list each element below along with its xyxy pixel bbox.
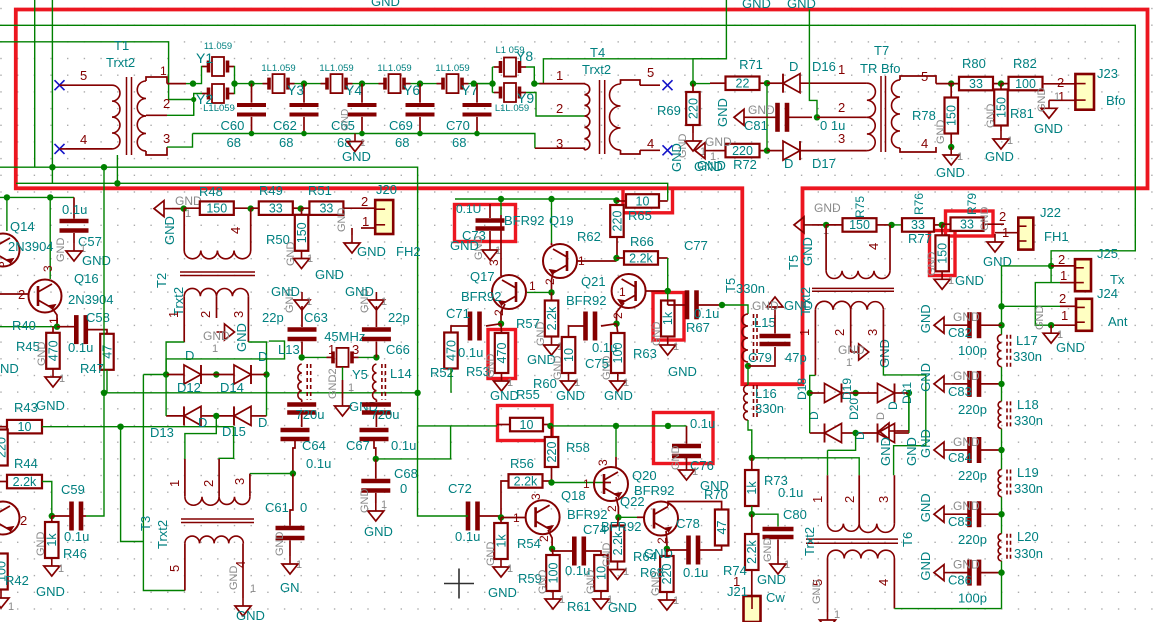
svg-text:10: 10 [636,194,650,208]
svg-text:68: 68 [452,135,466,150]
svg-text:GND: GND [1034,121,1063,136]
svg-text:GND: GND [918,304,933,333]
selection highlight box R79 [946,211,994,236]
svg-text:L14: L14 [390,366,412,381]
svg-text:T3: T3 [138,516,153,531]
selection highlight box R65 [623,188,673,213]
gnd C63 [271,284,312,313]
resistor R80 [936,56,1001,91]
junction C62 bottom [301,131,307,137]
svg-text:ND: ND [0,361,19,376]
svg-text:GND: GND [271,284,300,299]
connector J22 [1018,218,1033,250]
Y9 value [495,103,529,114]
junction R75 right [888,222,894,228]
svg-text:3: 3 [232,478,247,485]
junction bus [998,511,1004,517]
junction quad R [906,390,912,396]
junction bridge M [213,371,219,377]
svg-text:Q20: Q20 [632,468,657,483]
gnd R81 [985,104,1014,165]
capacitor C78 [667,516,722,580]
svg-text:Cw: Cw [766,590,785,605]
wire net at x=52.4 [16,0,668,201]
wire Q16 base [0,293,28,295]
T1 pin 5 [55,68,88,90]
svg-text:GND: GND [601,543,613,568]
junction R80 left [948,80,954,86]
crystal Y8/Y9 pair [474,58,585,117]
wire L15-L16 [747,366,749,385]
diode D18 [810,383,856,402]
svg-text:GND: GND [485,354,497,379]
wire R73-R74 [751,506,753,514]
svg-text:330n: 330n [1013,349,1042,364]
svg-text:3: 3 [41,265,55,272]
svg-text:2: 2 [1057,75,1064,90]
T2 pin4 [228,227,243,234]
svg-text:GND: GND [342,149,371,164]
capacitor C71 [446,306,501,341]
svg-text:R49: R49 [259,183,283,198]
svg-text:C83: C83 [948,384,972,399]
T5 pin3 [865,329,880,336]
svg-text:470: 470 [444,340,458,361]
transistor Q18 [526,500,560,534]
junction Q16 emitter [54,324,60,330]
svg-text:4: 4 [228,227,243,234]
svg-text:330n: 330n [1014,546,1043,561]
svg-text:GND: GND [926,252,938,277]
resistor R70 [704,487,729,546]
T4 label [582,45,611,77]
svg-text:1: 1 [623,566,629,578]
svg-text:2: 2 [842,496,857,503]
svg-text:2: 2 [361,194,368,209]
svg-text:R65: R65 [628,208,652,223]
svg-text:1: 1 [8,601,14,613]
gnd J23 [1034,88,1075,137]
svg-text:GND: GND [811,580,823,605]
crystal Y4 [319,63,362,98]
svg-text:D14: D14 [220,380,244,395]
svg-text:GND: GND [203,329,230,343]
wire T3 pin2 up [219,427,234,459]
svg-text:T4: T4 [590,45,605,60]
svg-text:1: 1 [360,138,366,149]
svg-text:GND: GND [35,532,47,557]
Q16 pins [18,265,61,324]
svg-text:10: 10 [18,420,32,434]
svg-text:1L1.059: 1L1.059 [319,63,353,74]
svg-text:1: 1 [296,559,302,571]
T7 pin 1 [838,62,845,77]
svg-text:1: 1 [834,609,840,621]
svg-text:GND: GND [36,342,48,367]
wire bridge top left [166,342,184,375]
svg-text:R81: R81 [1010,106,1034,121]
svg-text:GND: GND [953,369,980,383]
junction C81 right [814,114,820,120]
svg-text:R78: R78 [912,108,936,123]
svg-text:1: 1 [583,477,590,491]
svg-text:GND: GND [608,600,637,615]
connector J20 [375,200,393,234]
svg-text:GND: GND [904,437,919,466]
junction q19e [548,289,554,295]
junction y393 tee [414,390,420,396]
svg-text:GND: GND [234,323,249,352]
wire T1 primary bottom to rail [116,155,118,183]
svg-text:330n: 330n [1014,481,1043,496]
svg-text:1: 1 [166,311,181,318]
gnd T5 pin2 [838,332,892,369]
T4 pin 1 [556,68,563,83]
svg-text:3: 3 [556,136,563,151]
svg-text:2: 2 [1058,252,1065,267]
resistor R53 [466,324,509,379]
svg-text:2N3904: 2N3904 [8,239,54,254]
capacitor C69 [389,84,435,150]
svg-text:4: 4 [921,136,928,151]
L15 value [736,281,765,296]
capacitor C67 [346,430,416,459]
capacitor 720u left [287,400,324,427]
junction bus c82b [998,322,1004,328]
svg-text:Trxt2: Trxt2 [155,520,170,549]
svg-text:GND: GND [371,0,400,9]
diode D15 [216,406,266,425]
capacitor C82 [918,304,1002,358]
svg-text:2: 2 [832,329,847,336]
svg-text:GND: GND [878,437,893,466]
junction C65 bottom [359,131,365,137]
wire R66 right down [667,258,669,305]
svg-text:GND: GND [752,299,779,313]
wire q14 collector [6,197,8,231]
cursor crosshair [444,569,474,599]
svg-text:220: 220 [545,442,559,463]
wire r65 node [616,199,618,206]
T6 pin2 [842,496,857,503]
junction bus [998,381,1004,387]
wire T5 pin1 down [810,332,816,393]
T1 pin 1 [160,64,167,78]
svg-text:Trxt2: Trxt2 [582,62,611,77]
svg-text:L1L.059: L1L.059 [495,103,529,114]
svg-text:GND: GND [979,207,991,232]
svg-text:L1L059: L1L059 [203,103,235,114]
svg-text:T1: T1 [114,38,129,53]
svg-text:3: 3 [352,342,359,357]
svg-text:GN: GN [280,580,300,595]
svg-text:3: 3 [838,131,845,146]
D16 labels [789,59,836,74]
junction quad M2 [852,430,858,436]
wire C81 net from top [809,10,817,118]
junction Y5 left [299,354,305,360]
svg-text:11.059: 11.059 [204,41,232,52]
svg-text:1L1.059: 1L1.059 [435,63,469,74]
svg-text:1: 1 [673,595,679,607]
wire long net y393 [104,392,418,394]
svg-text:GND: GND [644,546,673,561]
svg-text:68: 68 [337,135,351,150]
T7 pin 3 [838,131,845,146]
svg-text:1L1.059: 1L1.059 [261,63,295,74]
svg-text:220: 220 [686,98,700,119]
resistor R50 [266,209,309,251]
connector J25 [1075,259,1091,291]
junction R76 right [939,222,945,228]
svg-text:GND: GND [936,165,965,180]
junction R43 net [117,424,123,430]
svg-text:GND: GND [651,322,663,347]
resistor R67 [661,301,710,337]
resistor R79 [942,193,1004,232]
svg-text:1: 1 [306,296,312,308]
svg-text:GND: GND [537,570,549,595]
svg-text:3: 3 [231,311,246,318]
junction R72 right [764,147,770,153]
transistor Q20 [594,467,628,501]
junction R75 left [823,222,829,228]
resistor R47 [80,334,114,376]
wire filter gnd rail [193,134,535,149]
quad labels [795,378,914,440]
gnd T3 pin4 [228,560,265,622]
T7 pin 2 [838,100,845,115]
svg-text:GND: GND [918,493,933,522]
svg-text:1: 1 [1060,268,1067,283]
crystal Y7 [435,63,478,98]
svg-text:2: 2 [201,480,216,487]
gnd labels top [742,0,816,11]
gnd J20 [336,208,375,254]
svg-text:2: 2 [20,513,27,528]
svg-text:D17: D17 [812,156,836,171]
wire q19 base [577,260,617,262]
gnd C81 [734,109,752,125]
wire J23 pin2 [1044,83,1076,85]
svg-text:GND: GND [800,237,815,266]
capacitor C63 [262,306,328,357]
wire q14 top net [0,196,74,198]
T2 pin1 [166,311,181,318]
J24 labels [1059,286,1128,329]
svg-text:R63: R63 [633,346,657,361]
wire T6 pin3 lead [893,475,895,523]
gnd R48 [154,194,202,245]
junction bridge M2 [213,413,219,419]
resistor R52 [430,333,483,381]
resistor R64 [611,517,657,564]
gnd R78 [935,120,965,181]
T1 label [106,38,135,70]
svg-text:1: 1 [692,466,698,478]
connector J21 [744,570,761,622]
svg-text:FH2: FH2 [396,244,421,259]
svg-text:33: 33 [969,77,983,91]
D13 D15 labels [150,415,267,440]
svg-text:2: 2 [543,278,557,285]
transformer T6 body [806,475,898,612]
J23 labels [1057,66,1126,108]
svg-text:L16: L16 [755,386,777,401]
svg-text:GND: GND [345,284,374,299]
svg-text:2: 2 [163,96,170,111]
wire GND top rail [0,25,1135,282]
svg-text:GND: GND [490,388,519,403]
junction bus c82a [998,303,1004,309]
svg-text:100: 100 [1015,77,1036,91]
junction R50 top [298,205,304,211]
svg-text:R58: R58 [566,440,590,455]
J22 labels [999,205,1069,244]
junction mid-left net [101,390,107,396]
Q21 labels [566,274,626,319]
wire R75-R76 [892,224,902,226]
gnd C76 [670,446,729,494]
svg-text:D: D [198,415,207,430]
wire T1 pin1 to filter [167,83,193,85]
svg-text:T7: T7 [874,43,889,58]
svg-text:1: 1 [673,341,679,353]
svg-text:22p: 22p [388,310,410,325]
svg-text:D12: D12 [177,380,201,395]
svg-text:D20: D20 [847,398,861,420]
Q17 labels [461,259,536,316]
junction C67 bottom [373,456,379,462]
T6 pin5 [810,579,825,586]
wire q17 base [527,278,557,292]
gnd quad right [875,412,897,466]
resistor R54 [494,518,541,560]
junction C76 net a [613,423,619,429]
junction R73 top [749,455,755,461]
svg-text:GND: GND [814,201,841,215]
svg-text:Q21: Q21 [581,274,606,289]
junction Y8 right [531,80,537,86]
resistor R65 [617,194,668,223]
svg-text:Y5: Y5 [352,367,368,382]
gnd R60 [552,356,585,404]
capacitor C77 [668,238,722,321]
junction R71 left [690,80,696,86]
svg-text:T5: T5 [786,255,801,270]
svg-text:22: 22 [736,77,750,91]
svg-text:D21: D21 [900,382,914,404]
svg-text:C62: C62 [273,118,297,133]
T5 pin1 [797,329,812,336]
resistor R73 [745,458,788,506]
capacitor C85 [918,493,1002,547]
svg-text:GND: GND [697,158,726,173]
Q18 labels [513,488,607,542]
svg-text:C58: C58 [86,310,110,325]
svg-text:GND: GND [953,310,980,324]
capacitor C60 [221,84,267,150]
svg-text:5: 5 [80,68,87,83]
selection highlight box R77 [930,231,956,276]
resistor R60 [533,326,586,391]
junction q17e [498,321,504,327]
diode D19 [810,423,856,442]
wire R47 bottom [106,370,108,393]
svg-text:GND: GND [336,208,348,233]
junction R58 top [547,423,553,429]
svg-text:1: 1 [381,499,387,511]
svg-text:2.2k: 2.2k [629,251,653,265]
T6 pin1 [810,496,825,503]
capacitor C68 [361,459,418,503]
wire Y8 junction up-right [535,59,727,84]
svg-text:Trxt2: Trxt2 [802,527,817,556]
inductor L19 [998,465,1043,497]
svg-text:R54: R54 [517,536,541,551]
resistor R63 [611,324,657,373]
capacitor C74 [552,522,607,578]
svg-text:1: 1 [507,563,513,575]
junction R71 right [764,80,770,86]
svg-text:BFR92: BFR92 [504,213,544,228]
svg-text:GND: GND [485,542,497,567]
svg-text:D: D [784,156,793,171]
wire net at x=34.7 [34,0,36,167]
svg-text:T6: T6 [900,532,915,547]
svg-text:GND: GND [340,109,351,131]
svg-text:68: 68 [395,135,409,150]
T3 pin1 [167,480,182,487]
svg-text:GND: GND [315,267,344,282]
capacitor 720u right [362,400,400,427]
svg-text:Ant: Ant [1108,314,1128,329]
junction quad M [852,390,858,396]
T3 pin4 [233,561,248,568]
svg-text:2: 2 [838,100,845,115]
wire J25 pin1 route [1035,283,1076,326]
svg-text:GND: GND [985,149,1014,164]
svg-text:470: 470 [46,340,60,361]
junction T1 bottom feed [114,180,120,186]
svg-text:150: 150 [206,202,227,216]
junction q14 a [4,194,10,200]
svg-text:220p: 220p [958,402,987,417]
svg-text:D: D [258,415,267,430]
inductor L20 [998,529,1043,561]
T6 pin3 net label [904,437,919,466]
T2 pin3 [231,311,246,318]
svg-text:GND: GND [650,572,662,597]
Y8 label [516,48,533,64]
svg-text:GND: GND [670,446,682,471]
crystal Y3 [261,63,304,98]
svg-text:1k: 1k [45,533,59,547]
T6 pin3 [876,496,891,503]
gnd R68 [644,546,679,610]
gnd C73 [450,236,501,261]
svg-text:4: 4 [866,243,881,250]
svg-text:GND: GND [285,242,297,267]
T3 pin3 [232,478,247,485]
capacitor C76 [668,416,715,473]
junction J24 pin1 gnd [1048,322,1054,328]
junction r65j [613,197,619,203]
svg-text:0: 0 [400,481,407,496]
svg-text:Q16: Q16 [74,271,99,286]
connector J23 [1075,74,1094,110]
svg-text:T2: T2 [154,273,169,288]
